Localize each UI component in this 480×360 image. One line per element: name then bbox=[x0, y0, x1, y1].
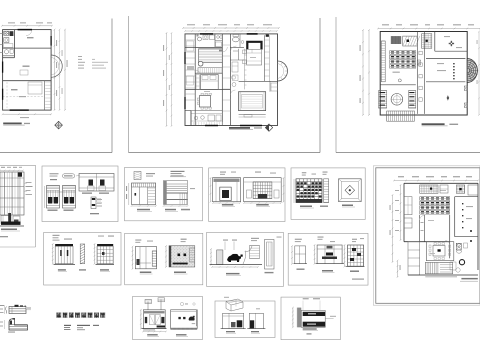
R3E cabinet 3 bbox=[348, 245, 364, 266]
plan 3 striped block right of rose bbox=[409, 91, 416, 109]
sheet A border (partial left) bbox=[0, 164, 36, 166]
sheet T1 bottom border bbox=[0, 152, 112, 154]
sheet T3 bottom border bbox=[336, 152, 480, 154]
R4A caption 2 bbox=[176, 334, 187, 335]
plan 2 bed canopy dark U bbox=[247, 42, 261, 50]
plan 1 outer walls bbox=[3, 30, 52, 111]
plan 2 bedroom2 mid right bbox=[239, 80, 278, 82]
plan 2 left dimension chains bbox=[166, 33, 168, 126]
plan 3 stair hatch strip bbox=[387, 111, 415, 121]
P4 caption bbox=[461, 278, 477, 280]
plan 1 bed bottom room bbox=[28, 82, 42, 94]
plan 1 top room label bbox=[27, 37, 34, 38]
plan 2 bottom-left bed bbox=[201, 75, 219, 90]
sheet A dark base bar bbox=[1, 222, 21, 225]
plan 3 top dimension text bbox=[382, 24, 389, 25]
plan 3 right-center room bbox=[426, 58, 465, 60]
sheet A dim text row bbox=[1, 167, 5, 168]
R4C dark band 1 bbox=[301, 310, 325, 327]
R3D dim marks top bbox=[223, 240, 228, 241]
sheet B border bbox=[42, 166, 118, 222]
plan 1 bottom room dashed bbox=[6, 82, 8, 108]
plan 1 kitchen fixtures bbox=[4, 31, 9, 35]
sheet T2 left border bbox=[128, 16, 130, 153]
P4 stairs striped bottom bbox=[425, 262, 452, 273]
R4A left baseline bbox=[142, 328, 167, 330]
plan 3 window X marks left top bbox=[418, 60, 421, 65]
sheet A dark hatch column bbox=[8, 213, 11, 224]
plan 2 bath top-left bbox=[195, 46, 222, 48]
R3D baseline bbox=[210, 264, 263, 266]
plan 3 corridor lines bbox=[416, 32, 418, 114]
plan 3 striped wardrobe band bbox=[390, 51, 416, 55]
sheet R3E border bbox=[288, 233, 368, 285]
sheet R4A border bbox=[133, 297, 203, 340]
R4A caption 1 bbox=[147, 334, 158, 335]
P4 ceiling grid square 2 bbox=[456, 185, 464, 193]
R3D curved tree line bbox=[243, 246, 252, 264]
plan 2 bed below canopy bbox=[247, 49, 262, 65]
sheet D caption 2 bbox=[256, 204, 269, 206]
R4A right elevation bbox=[171, 310, 198, 329]
plan 2 side tables bbox=[243, 50, 247, 54]
plan 1 bay window arc bbox=[51, 55, 62, 77]
sheet P4 outer border bbox=[373, 166, 480, 305]
plan 3 outer walls bbox=[380, 32, 467, 116]
title sub text bbox=[64, 325, 71, 326]
P4 striped wardrobe band bbox=[420, 197, 450, 201]
P4 room marks bbox=[428, 220, 434, 221]
sheet A right callout texts bbox=[26, 182, 32, 183]
plan 3 window X marks right wall bbox=[464, 86, 467, 91]
sheet E narrow side bbox=[324, 179, 329, 203]
R3C stippled wall bbox=[169, 246, 195, 267]
sheet B pill label bbox=[62, 174, 74, 178]
R4A callout flag 2 bbox=[160, 300, 162, 310]
R3D small text block bbox=[251, 238, 259, 239]
plan 2 living room sofa square bbox=[239, 92, 266, 111]
sheet T1 right border bbox=[111, 19, 113, 153]
sheet T3 left border bbox=[335, 17, 337, 153]
R4A left elevation bbox=[143, 310, 165, 329]
R3B header text bbox=[53, 235, 60, 236]
R3E cabinet 1 bbox=[295, 246, 306, 264]
plan 1 bath walls bbox=[3, 55, 15, 57]
plan 3 right edge dimension chain bbox=[478, 32, 480, 116]
R4C caption bbox=[303, 328, 317, 329]
sheet C header hatch box bbox=[134, 172, 141, 180]
R4C header dims bbox=[303, 298, 309, 299]
sheet R3B border bbox=[44, 233, 121, 286]
plan 2 outer walls bbox=[185, 34, 278, 126]
plan 3 corridor lights bbox=[419, 51, 422, 54]
R4C left vdim bbox=[292, 308, 294, 328]
R3D tall panel right bbox=[265, 240, 275, 270]
R3D caption bbox=[226, 273, 240, 275]
R3D dog sculpture blob bbox=[227, 254, 241, 262]
plan 2 mid walls bbox=[185, 46, 195, 48]
sheet R3D border bbox=[207, 232, 284, 286]
plan 2 kitchen top bbox=[214, 34, 216, 48]
plan 1 middle wall low bbox=[3, 80, 52, 82]
plan 2 top dimension text bbox=[187, 24, 195, 25]
R3E header texts bbox=[295, 239, 302, 240]
plan 3 solid grey ceiling square bbox=[391, 36, 401, 44]
P4 left tick column bbox=[400, 185, 402, 240]
R3B diagonal hatch column bbox=[80, 244, 84, 264]
plan 2 center room walls bbox=[238, 49, 240, 60]
P4 hatched square small bbox=[456, 243, 461, 250]
R4A right baseboard strip bbox=[171, 328, 198, 330]
plan 2 bedroom2 wardrobe right bbox=[271, 83, 278, 91]
P4 bottom-left dims bbox=[397, 261, 399, 277]
plan 2 caption bbox=[229, 127, 250, 129]
plan 2 corridor walls bbox=[221, 34, 223, 126]
P4 top dimension chain bbox=[394, 180, 478, 182]
plan 1 balcony strip bbox=[44, 81, 46, 110]
plan 2 living tatami hatch bbox=[199, 49, 223, 63]
sheet C border bbox=[125, 168, 203, 221]
plan 2 kitchen counter bottom bbox=[191, 111, 222, 126]
plan 2 closet bottom-left room bbox=[196, 75, 200, 90]
plan 2 top-right bedroom window bar bbox=[247, 33, 258, 35]
moulding detail 2 bbox=[9, 319, 28, 330]
plan 1 top dimension text bbox=[8, 22, 15, 23]
plan 2 door arcs bbox=[222, 47, 227, 52]
P4 far-left dim chain bbox=[392, 195, 394, 262]
plan 2 lower-left walls bbox=[190, 111, 192, 126]
plan 3 bottom-right fan bbox=[447, 95, 449, 101]
P4 corridor bbox=[419, 215, 421, 242]
plan 3 mid-left room bbox=[380, 84, 416, 86]
P4 ceiling grid square 1 bbox=[420, 185, 438, 193]
sheet E header texts bbox=[302, 172, 307, 173]
plan 3 left dimension chains bbox=[362, 30, 364, 115]
plan 2 round table bbox=[198, 61, 203, 66]
plan 1 middle room table bbox=[20, 70, 28, 75]
R3E cabinet 2 bbox=[317, 245, 342, 264]
plan 2 top dimension chain bbox=[183, 27, 279, 29]
sheet B right cabinet elevation bbox=[79, 174, 114, 192]
plan 3 top dimension chain bbox=[378, 28, 480, 30]
R4B axonometric sketch bbox=[226, 299, 243, 305]
R4B left small elevation bbox=[223, 313, 244, 328]
sheet D caption 1 bbox=[222, 204, 233, 206]
sheet B section detail bbox=[91, 197, 96, 209]
P4 mid walls bbox=[404, 241, 450, 243]
sheet B left tower elevation 2 bbox=[63, 186, 76, 209]
sheet R4B border bbox=[215, 301, 275, 338]
plan 3 fan symbol top-right bbox=[450, 43, 452, 45]
P4 left small rooms column bbox=[404, 197, 412, 215]
plan 3 checker ceiling square bbox=[422, 34, 432, 49]
sheet D tv wall elevation bbox=[213, 178, 241, 202]
R4C dark band 2 bbox=[303, 322, 326, 327]
sheet A caption bbox=[1, 229, 17, 231]
plan 1 middle room label bbox=[23, 66, 30, 67]
R3C header text bbox=[135, 240, 141, 241]
R4C left hatch column bbox=[297, 308, 301, 328]
sheet E ceiling panel bbox=[339, 179, 362, 202]
title 豪宅装修施工图集 bbox=[56, 313, 61, 318]
plan 2 center room furniture bbox=[232, 62, 238, 72]
sheet C bench side elevation bbox=[171, 171, 185, 172]
P4 bottom wall bbox=[408, 274, 478, 276]
plan 1 compass diamond bbox=[55, 121, 63, 129]
R4A callout flag 1 bbox=[147, 302, 149, 310]
plan 1 top room door arc bbox=[26, 30, 32, 36]
plan 3 bay fan hatch bbox=[467, 59, 477, 83]
sheet A dark corner block bbox=[18, 173, 22, 177]
sheet B left tower elevation 1 bbox=[47, 186, 60, 209]
R3B right cabinet bbox=[97, 244, 113, 246]
R3D left tower bbox=[217, 250, 223, 265]
plan 1 windows bbox=[18, 29, 32, 31]
plan 2 bath2 fixtures bbox=[232, 83, 236, 87]
plan 1 caption bbox=[3, 123, 22, 125]
sheet E wardrobe dark grid bbox=[296, 179, 322, 203]
plan 2 left closet strip bbox=[194, 34, 196, 126]
plan 2 hall cabinets bbox=[245, 49, 247, 51]
plan 3 ceiling rose circle bbox=[391, 94, 403, 106]
plan 2 tv cabinet bbox=[239, 114, 266, 116]
plan 1 bath fixtures bbox=[4, 50, 8, 54]
plan 2 dining table lower bbox=[200, 96, 211, 108]
sheet E captions bbox=[300, 206, 312, 208]
P4 small squares top bbox=[440, 185, 448, 193]
sheet T2 right border bbox=[319, 18, 321, 153]
plan 2 right wardrobe strip bbox=[263, 35, 265, 81]
plan 1 bottom room labels bbox=[11, 89, 18, 90]
plan 1 kitchen walls bbox=[13, 30, 15, 58]
R3E bottom note bbox=[352, 279, 364, 280]
plan 1 top dimension chain bbox=[2, 25, 52, 27]
sheet D bed elevation bbox=[244, 178, 282, 202]
sheet R4C border bbox=[281, 297, 340, 340]
plan 1 legend text block bbox=[78, 56, 82, 57]
R4A wc fixtures dark cluster bbox=[189, 317, 195, 321]
plan 3 striped block left of rose bbox=[379, 91, 387, 109]
P4 top-right small room bbox=[468, 185, 478, 195]
plan 2 north diamond bbox=[265, 124, 272, 131]
P4 dining room table bbox=[426, 242, 454, 261]
sheet E border bbox=[291, 168, 365, 220]
plan 1 left margin ticks bbox=[0, 33, 3, 34]
P4 corridor door arcs bbox=[420, 216, 425, 221]
R4A callout circles bbox=[180, 302, 183, 305]
plan 2 toilet room bbox=[230, 46, 244, 48]
plan 1 right dimension chains bbox=[54, 30, 56, 110]
plan 3 top-right room bbox=[434, 32, 436, 52]
plan 2 second hatch block bbox=[198, 68, 222, 74]
sheet T2 bottom border bbox=[129, 152, 321, 154]
sheet P4 inner border bbox=[376, 168, 480, 303]
P4 plan outer wall bbox=[404, 182, 478, 184]
R4B right small elevation bbox=[249, 313, 263, 328]
moulding detail 1 bbox=[9, 307, 26, 314]
sheet D header texts bbox=[220, 172, 226, 173]
plan 2 windows bbox=[200, 33, 213, 35]
plan 3 left wall closet strip bbox=[381, 41, 385, 82]
plan 2 bay window arc bbox=[278, 61, 288, 81]
plan 2 misc small marks bbox=[219, 50, 222, 52]
plan 3 caption bbox=[422, 123, 445, 125]
R3D small side drawing bbox=[250, 246, 260, 259]
P4 bottom-left rooms bbox=[408, 242, 420, 275]
P4 wc fixtures right bbox=[457, 244, 462, 247]
plan 1 bottom dimension bbox=[3, 113, 52, 115]
plan 3 diagonal hatch square bbox=[403, 36, 418, 46]
sheet C wardrobe elevation bbox=[132, 183, 156, 205]
sheet B header text bbox=[50, 173, 59, 174]
P4 top dimension text bbox=[398, 176, 404, 177]
P4 bathroom dark ring bbox=[459, 260, 464, 265]
sheet B speaker blobs bbox=[89, 180, 94, 186]
R3C left cabinet elevation bbox=[135, 247, 156, 269]
P4 right tall room bbox=[454, 197, 456, 237]
sheet A bottom section bbox=[1, 216, 11, 224]
sheet D border bbox=[209, 168, 285, 222]
sheet A elevation drawing bbox=[0, 172, 24, 215]
R3B left cabinet bbox=[55, 244, 73, 246]
sheet R3C border bbox=[125, 233, 203, 284]
